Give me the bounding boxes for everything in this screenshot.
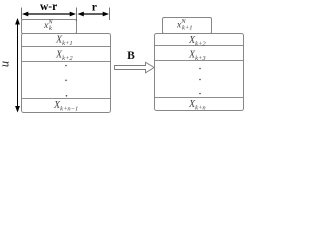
w-r dimension arrow bbox=[26, 13, 72, 15]
right small box x_k+1^N bbox=[163, 18, 212, 34]
svg-text:r: r bbox=[92, 2, 97, 14]
r dimension arrow bbox=[81, 13, 105, 15]
left big rectangle (buffer at time k) bbox=[22, 34, 111, 113]
row line above X_k+n-1 bbox=[22, 98, 110, 100]
row line under X_k+2 bbox=[22, 61, 110, 63]
n vertical dimension arrow bbox=[17, 22, 19, 108]
dimension tick right bbox=[109, 8, 111, 21]
right big rectangle (buffer at time k+1) bbox=[155, 34, 244, 111]
left small box x_k^N bbox=[22, 20, 77, 34]
right vdots bbox=[199, 68, 201, 70]
dimension tick middle bbox=[76, 8, 78, 22]
svg-text:w-r: w-r bbox=[40, 1, 57, 13]
row line under X_k+1 bbox=[22, 46, 110, 48]
dimension tick left bbox=[21, 8, 23, 20]
left vdots bbox=[65, 65, 67, 67]
svg-text:B: B bbox=[127, 50, 135, 62]
row line under X_k+2 (right) bbox=[155, 45, 243, 47]
svg-text:n: n bbox=[0, 61, 14, 67]
block arrow B bbox=[115, 62, 155, 73]
row line above X_k+n (right) bbox=[155, 97, 243, 99]
svg-text:xNk: xNk bbox=[43, 19, 53, 32]
row line under X_k+3 (right) bbox=[155, 60, 243, 62]
